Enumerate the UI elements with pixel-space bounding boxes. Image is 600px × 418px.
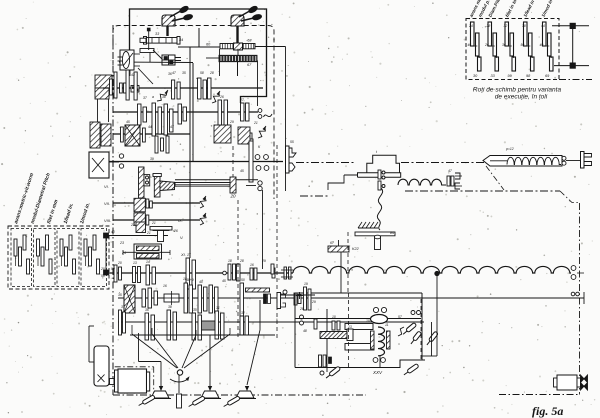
shaft IV y134	[113, 133, 190, 135]
svg-text:a: a	[152, 95, 154, 99]
motor dash-dot frame	[115, 366, 154, 368]
svg-text:de execuție, în țoli: de execuție, în țoli	[495, 94, 548, 101]
bottom line y335	[130, 334, 275, 336]
sub-box 2	[34, 229, 56, 287]
gears on VII b	[146, 265, 150, 285]
apron bottom	[295, 360, 425, 368]
gear rack 60	[220, 44, 255, 49]
vertical solid x262	[262, 190, 264, 269]
equal marks	[175, 57, 181, 59]
apron bottom gears	[319, 355, 322, 367]
svg-text:20: 20	[100, 267, 105, 271]
vertical solid x197	[198, 28, 200, 47]
connector square bottom	[570, 63, 575, 68]
gears on IX a	[119, 310, 122, 335]
gears on IX c	[167, 310, 171, 340]
pinion gears under saddle	[378, 170, 381, 179]
svg-text:VI.: VI.	[104, 184, 109, 189]
clutch 22 hatched	[136, 222, 146, 233]
svg-text:21: 21	[146, 231, 151, 235]
small bracket detail	[240, 133, 252, 142]
clutch square 2x2	[162, 55, 175, 65]
connector line top	[552, 25, 589, 27]
diag link	[153, 50, 164, 61]
gears on VI	[134, 213, 145, 225]
hanger bar	[355, 232, 395, 236]
apron dashed vertical	[348, 293, 350, 367]
change gear box dashed	[466, 19, 559, 80]
svg-text:K22: K22	[352, 247, 360, 251]
svg-text:Roți de schimb pentru varianta: Roți de schimb pentru varianta	[473, 87, 562, 94]
machine boundary bottom-left dash-dot	[113, 394, 366, 396]
shaft III y112	[113, 111, 258, 113]
sub-box 4	[81, 229, 107, 287]
svg-text:34: 34	[179, 38, 183, 42]
bed ways left bit	[300, 195, 330, 197]
leadscrew wavy	[293, 266, 571, 273]
shaft V y203	[113, 202, 200, 204]
change gears set 2	[37, 239, 40, 256]
bearing circles below tall gear	[258, 181, 262, 185]
selector diagonals	[132, 334, 177, 368]
control rod 2	[209, 335, 211, 390]
bracket X-box	[94, 346, 109, 386]
aux pivot line	[148, 30, 150, 50]
svg-text:43: 43	[131, 73, 135, 77]
wire y235.5	[104, 235, 168, 237]
spring detent 3	[258, 127, 265, 138]
bearing circle group	[255, 155, 260, 160]
apron pinion ellipse	[371, 315, 388, 324]
clutch VIII X-hatch	[124, 285, 135, 313]
shaft II y88	[103, 87, 263, 89]
wire x190 to feed box	[189, 162, 191, 259]
svg-text:28: 28	[299, 307, 304, 311]
gears on VII c tall	[186, 258, 190, 289]
apron circles left	[300, 315, 304, 319]
svg-text:24: 24	[468, 24, 473, 28]
headstock dashed border	[113, 26, 274, 200]
worm box axis	[123, 251, 170, 253]
gears on VII d	[228, 264, 231, 280]
apron input gears	[304, 287, 307, 310]
svg-text:XXV: XXV	[372, 370, 383, 375]
gears on III b	[178, 104, 182, 124]
tall gear on feed rod	[249, 141, 253, 182]
rack end plate	[230, 177, 236, 193]
svg-text:29: 29	[311, 300, 316, 304]
pivot stem	[178, 375, 180, 393]
apron worm wheel bar lower	[345, 344, 374, 351]
left change-gear box dashed	[8, 226, 109, 289]
pivot pill	[177, 394, 182, 408]
gears on VIII c cluster	[198, 285, 202, 313]
leadscrew end circles	[562, 156, 566, 160]
tailstock motor	[557, 375, 577, 390]
coupling jaw bracket	[289, 148, 296, 157]
leadscrew worm scallops	[507, 157, 561, 164]
cone pulley hatched	[90, 122, 100, 148]
wire to gearbox A	[104, 235, 131, 237]
svg-text:40: 40	[199, 280, 203, 284]
svg-text:IX.: IX.	[178, 218, 183, 223]
halfnut release lever	[425, 331, 438, 346]
svg-text:32: 32	[504, 24, 508, 28]
svg-text:19: 19	[304, 282, 308, 286]
apron left edge	[294, 293, 296, 368]
apron handwheel lever	[402, 322, 417, 335]
diag fork line	[138, 68, 153, 84]
svg-text:40: 40	[111, 230, 115, 234]
svg-text:28: 28	[209, 71, 214, 75]
leadscrew worm body	[483, 156, 562, 167]
apron small gears	[332, 321, 335, 330]
hanger pill	[375, 237, 381, 250]
change gears set 4	[84, 239, 87, 256]
bed ways dash-dot	[405, 190, 560, 192]
svg-text:40: 40	[540, 43, 544, 47]
bearing circles III	[258, 109, 262, 113]
worm spring on feed rod	[398, 179, 446, 185]
hanger bar 2	[150, 227, 172, 231]
apron handle left	[326, 364, 328, 373]
svg-text:29: 29	[261, 259, 266, 263]
rack bar	[175, 183, 230, 187]
svg-text:26: 26	[484, 43, 489, 47]
spring detent VI	[200, 214, 206, 225]
apron worm bottom circles	[373, 358, 378, 363]
svg-text:58: 58	[200, 71, 204, 75]
connector line bottom	[554, 65, 589, 67]
control rod 3	[247, 300, 260, 385]
svg-text:31: 31	[216, 306, 220, 310]
small bar 21	[153, 227, 169, 231]
change gear column 3	[505, 22, 509, 46]
gears on IX e	[215, 311, 219, 339]
clutch hatched right	[238, 127, 250, 144]
svg-text:50: 50	[101, 274, 105, 278]
halfnut junction dot	[435, 271, 439, 275]
spring detent 2	[212, 92, 219, 103]
svg-text:26: 26	[219, 95, 224, 99]
lever L2 stem	[236, 26, 238, 44]
svg-text:47: 47	[172, 71, 176, 75]
stand 3	[236, 391, 254, 398]
gear K22 hatched	[328, 246, 349, 252]
spring detent V	[200, 197, 206, 208]
svg-text:V.: V.	[180, 235, 183, 240]
gear cluster on II a	[126, 70, 129, 100]
shaft VII y273 wire	[104, 272, 293, 274]
svg-text:29: 29	[229, 120, 234, 124]
wall gears VII	[114, 265, 117, 282]
vertical dashed x238	[237, 200, 239, 340]
handle 2	[188, 396, 206, 408]
bed diag at leadscrew tip	[486, 166, 504, 190]
lower cluster IV	[155, 136, 158, 153]
bed ways step	[560, 191, 578, 203]
svg-text:23: 23	[119, 241, 124, 245]
svg-text:10: 10	[366, 319, 370, 323]
svg-text:37: 37	[121, 305, 125, 309]
svg-text:VIII.: VIII.	[104, 218, 111, 223]
belt lines	[97, 99, 99, 122]
feed rod shaft y161.5	[109, 161, 283, 163]
gear cluster on II c	[198, 78, 202, 99]
connector square top	[570, 23, 575, 28]
svg-text:18: 18	[228, 259, 232, 263]
diag fork line2	[123, 53, 133, 66]
handle 3	[223, 396, 241, 408]
wire motor to gearbox	[109, 161, 119, 163]
junction square A	[104, 233, 109, 238]
svg-text:45: 45	[240, 169, 244, 173]
svg-text:57: 57	[398, 315, 402, 319]
shaft IX y322	[118, 321, 424, 323]
handle 1	[138, 395, 156, 407]
svg-text:44: 44	[541, 24, 545, 28]
rack bracket hatched	[154, 176, 160, 197]
svg-text:21: 21	[151, 221, 156, 225]
change gear column 1	[471, 22, 475, 46]
sub-box 1	[11, 229, 32, 287]
wire x348 dashed to apron	[347, 232, 349, 293]
change gears set 1	[14, 239, 17, 256]
apron rack bar hatched	[320, 332, 347, 339]
change gear column 2	[488, 22, 492, 46]
apron dashed vertical right	[420, 299, 422, 360]
gear cluster on II b	[172, 80, 175, 99]
vertical dashed x277	[276, 145, 278, 340]
svg-text:-68: -68	[246, 39, 252, 43]
svg-text:20: 20	[117, 261, 122, 265]
svg-text:36: 36	[145, 308, 149, 312]
motor M2	[115, 370, 119, 392]
dashed stem above end plate	[232, 146, 234, 177]
apron circles b	[373, 307, 378, 312]
bearing wall II	[120, 83, 123, 93]
svg-text:35: 35	[182, 71, 186, 75]
svg-text:45: 45	[126, 120, 130, 124]
pivot arc arrow	[170, 379, 188, 382]
wire y62 headstock	[119, 61, 193, 64]
svg-text:32: 32	[241, 311, 245, 315]
leadscrew left coupling ticks	[284, 267, 287, 279]
change gears set 3	[60, 239, 63, 256]
gears on IX b	[145, 313, 149, 340]
svg-text:37: 37	[143, 96, 147, 100]
svg-text:26: 26	[173, 229, 178, 233]
gear ticks x273	[271, 264, 274, 274]
worm box hatched bar 1	[137, 246, 160, 251]
worm box hatched bar 2	[137, 254, 160, 259]
svg-text:55: 55	[290, 140, 294, 144]
flexible squiggle	[377, 188, 382, 230]
gears on VII e	[250, 268, 253, 280]
leadscrew right bracket	[581, 152, 585, 169]
change gear column 5	[543, 22, 547, 46]
gears on V	[134, 198, 145, 212]
feed rod centerline dash-dot 2	[401, 162, 484, 164]
svg-text:13: 13	[348, 325, 352, 329]
svg-text:39: 39	[150, 157, 154, 161]
machine boundary right dash-dot	[579, 203, 581, 395]
clutch IV flank bars	[121, 127, 124, 142]
svg-text:50: 50	[241, 278, 245, 282]
wire rack60 to halfnut bracket	[255, 46, 286, 48]
ground hatch	[358, 222, 362, 228]
lever L2 stem lower	[237, 61, 239, 76]
svg-text:22: 22	[130, 223, 135, 227]
halfnut vertical	[436, 276, 438, 356]
gear rack 67 dark	[219, 55, 257, 61]
wire to rack 67	[206, 57, 219, 59]
svg-text:38: 38	[162, 95, 166, 99]
svg-text:p=12: p=12	[505, 147, 514, 151]
apron line y318.5	[295, 318, 421, 320]
gears on III a	[138, 104, 142, 125]
svg-text:46: 46	[468, 43, 472, 47]
svg-text:44: 44	[148, 125, 152, 129]
worm box	[134, 244, 162, 259]
svg-text:11: 11	[385, 323, 389, 327]
svg-text:24: 24	[121, 251, 126, 255]
svg-text:20: 20	[230, 194, 237, 199]
rack bar 16	[140, 49, 154, 53]
svg-text:VII.: VII.	[104, 201, 110, 206]
svg-text:28: 28	[486, 24, 491, 28]
svg-text:38: 38	[522, 24, 526, 28]
machine boundary bottom-right dash-dot	[499, 394, 580, 396]
bearing circles left	[119, 154, 123, 158]
svg-text:47: 47	[448, 169, 452, 173]
gears on IX f	[240, 316, 244, 335]
svg-text:35: 35	[118, 293, 122, 297]
main motor M1 with X	[89, 152, 109, 178]
coupling bracket VIII end	[277, 293, 281, 309]
junction square B	[104, 270, 109, 275]
gears on VIII d	[240, 283, 244, 316]
svg-text:47: 47	[170, 125, 174, 129]
svg-text:fig. 5a: fig. 5a	[532, 404, 563, 418]
gears on VII f	[272, 268, 275, 278]
saddle block	[344, 155, 401, 177]
apron worm wheel bar upper	[345, 324, 373, 330]
change gear column 4	[524, 22, 528, 46]
worm end forks	[455, 173, 460, 189]
svg-text:27: 27	[239, 98, 244, 102]
shaft III break squiggle	[264, 114, 273, 117]
wire rack to gearbox	[257, 61, 259, 107]
wire x219	[219, 49, 221, 76]
svg-text:45: 45	[222, 279, 226, 283]
apron dark gear bottom left	[324, 357, 327, 364]
svg-text:50: 50	[111, 267, 115, 271]
clutch square II	[131, 86, 139, 93]
wire to rack 60	[178, 46, 220, 48]
svg-text:48: 48	[303, 329, 307, 333]
belt pulley bowtie	[581, 375, 588, 390]
svg-text:38: 38	[168, 305, 172, 309]
gear stems	[131, 325, 133, 334]
machine boundary left dash-dot	[112, 25, 114, 395]
apron handle right	[409, 331, 421, 345]
saddle left step	[328, 175, 344, 190]
leadscrew end circles right	[571, 266, 576, 271]
apron top edge	[295, 292, 422, 294]
gears on VIII a	[142, 289, 146, 307]
apron worm vertical	[378, 327, 385, 356]
apron circles c	[411, 311, 415, 315]
svg-text:16: 16	[163, 284, 167, 288]
svg-text:16: 16	[250, 263, 254, 267]
belt pulley top hatched	[95, 75, 112, 88]
gears on III c	[241, 103, 245, 121]
spring detent 1	[157, 91, 167, 101]
shaft VIII y298 long	[118, 297, 584, 299]
clutch X-hatch left	[125, 125, 140, 146]
svg-text:67: 67	[330, 241, 334, 245]
sliding cluster tall bars	[152, 103, 156, 136]
svg-text:36: 36	[502, 43, 506, 47]
svg-text:21: 21	[253, 121, 258, 125]
wire junction vertical	[105, 238, 107, 270]
clutch hatched on III	[214, 125, 231, 143]
headstock solid frame	[130, 9, 267, 103]
stand 2	[201, 391, 219, 398]
svg-text:17: 17	[187, 253, 191, 257]
sub-box 3	[57, 229, 79, 287]
svg-text:XI.: XI.	[180, 252, 186, 257]
feed line right end ticks	[571, 292, 575, 296]
pivot circle	[177, 370, 182, 375]
gears on VIII b tall	[184, 283, 188, 313]
svg-text:30: 30	[193, 308, 197, 312]
svg-text:13: 13	[133, 261, 137, 265]
rack pinion wedge	[160, 181, 175, 191]
connector vertical	[572, 26, 574, 66]
svg-text:10: 10	[332, 315, 336, 319]
shift lever L2	[231, 5, 262, 26]
wire x341 to apron	[340, 252, 342, 293]
coupling VIII	[164, 294, 179, 302]
apron input cross	[296, 295, 303, 297]
shift lever L1	[162, 5, 193, 26]
rack support column hatched	[139, 167, 145, 198]
gear pair VIII right	[264, 294, 267, 304]
svg-text:14: 14	[146, 260, 150, 264]
spindle drum	[120, 50, 134, 70]
rack guide line	[175, 179, 258, 181]
gears on VII a	[133, 267, 136, 283]
wall marks	[118, 56, 123, 58]
shaft VI y220	[113, 219, 200, 221]
feed rod centerline dash-dot	[296, 162, 356, 164]
svg-text:28: 28	[239, 259, 244, 263]
control rod 1	[138, 333, 140, 362]
svg-text:48+9: 48+9	[186, 278, 194, 282]
rack stem	[237, 49, 239, 56]
stand 1	[151, 391, 169, 398]
lever L1 stem	[166, 26, 168, 36]
svg-text:50: 50	[521, 43, 525, 47]
box bottom dash-dot ext	[559, 79, 592, 81]
wall gears II left	[110, 79, 113, 95]
apron right edge	[421, 293, 423, 360]
gear rack bar 34	[146, 38, 177, 44]
gears on IX d	[192, 313, 196, 340]
apron vertical shaft x327	[326, 309, 328, 357]
